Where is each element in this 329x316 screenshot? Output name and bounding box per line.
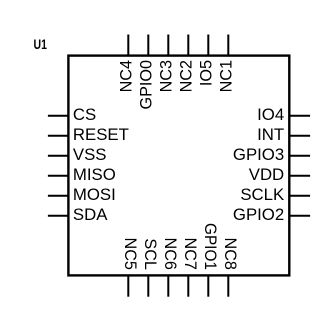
wire pin NC1 [227, 35, 229, 56]
svg-text:SDA: SDA [73, 205, 108, 224]
svg-text:NC8: NC8 [221, 238, 239, 270]
svg-text:MOSI: MOSI [73, 185, 116, 204]
svg-text:GPIO2: GPIO2 [233, 205, 284, 224]
wire pin VSS [48, 155, 69, 157]
svg-text:SCLK: SCLK [240, 185, 284, 204]
wire pin NC5 [127, 275, 129, 296]
wire pin GPIO2 [289, 215, 310, 217]
wire pin IO4 [289, 115, 310, 117]
svg-text:MISO: MISO [73, 165, 116, 184]
wire pin NC2 [187, 35, 189, 56]
svg-text:NC6: NC6 [161, 238, 179, 270]
svg-text:NC7: NC7 [181, 238, 199, 270]
wire pin SDA [48, 215, 69, 217]
svg-text:RESET: RESET [73, 125, 129, 144]
wire pin GPIO1 [207, 275, 209, 296]
svg-text:SCL: SCL [141, 238, 159, 270]
svg-text:NC2: NC2 [178, 60, 196, 92]
svg-text:VDD: VDD [249, 165, 284, 184]
svg-text:NC3: NC3 [158, 60, 176, 92]
wire pin NC7 [187, 275, 189, 296]
IC body outline [68, 56, 289, 276]
svg-text:IO4: IO4 [257, 105, 284, 124]
wire pin GPIO3 [289, 155, 310, 157]
wire pin NC6 [167, 275, 169, 296]
svg-text:NC5: NC5 [121, 238, 139, 270]
svg-text:GPIO1: GPIO1 [201, 223, 219, 270]
svg-text:NC1: NC1 [218, 60, 236, 92]
wire pin SCLK [289, 195, 310, 197]
wire pin NC8 [227, 275, 229, 296]
wire pin NC4 [127, 35, 129, 56]
wire pin MOSI [48, 195, 69, 197]
svg-text:VSS: VSS [73, 145, 107, 164]
svg-text:U1: U1 [34, 36, 48, 52]
wire pin RESET [48, 135, 69, 137]
svg-text:GPIO0: GPIO0 [138, 60, 156, 109]
wire pin IO5 [207, 35, 209, 56]
svg-text:CS: CS [73, 105, 96, 124]
wire pin CS [48, 115, 69, 117]
svg-text:GPIO3: GPIO3 [233, 145, 284, 164]
svg-text:INT: INT [257, 125, 284, 144]
wire pin MISO [48, 175, 69, 177]
wire pin INT [289, 135, 310, 137]
wire pin GPIO0 [147, 35, 149, 56]
wire pin SCL [147, 275, 149, 296]
wire pin VDD [289, 175, 310, 177]
wire pin NC3 [167, 35, 169, 56]
svg-text:IO5: IO5 [198, 60, 216, 86]
svg-text:NC4: NC4 [118, 60, 136, 92]
IC U1 [34, 36, 290, 275]
